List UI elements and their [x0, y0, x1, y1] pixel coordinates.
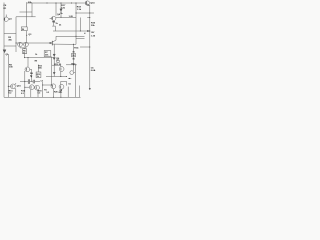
- transistor Q5 collector: [52, 36, 56, 42]
- resistor R5 box: [23, 49, 27, 54]
- wire mirror emitter left: [19, 47, 21, 48]
- transistor Q5 emitter wire y44.3: [52, 43, 76, 45]
- node dot: [89, 13, 90, 14]
- wire rail x26.7 top: [26, 2, 28, 27]
- svg-text:0.3: 0.3: [38, 93, 42, 95]
- svg-text:4: 4: [84, 32, 86, 35]
- resistor R3 box: [21, 27, 27, 31]
- transistor Q10: [11, 84, 16, 89]
- wire vertical x32: [31, 3, 33, 17]
- svg-text:0.2: 0.2: [9, 93, 13, 95]
- transistor Q1 base bar: [4, 18, 6, 20]
- wire x55.3: [54, 26, 56, 31]
- wire bottom rail: [4, 96, 81, 98]
- node dot: [89, 31, 90, 32]
- transistor Q10 collector: [15, 83, 16, 85]
- terminal mark right rail: [89, 88, 91, 89]
- transistor Q12 emitter leg: [37, 90, 39, 97]
- wire loop left: [60, 81, 62, 84]
- transistor Q2 base bar: [52, 17, 54, 20]
- transistor Q3 mirror left: [18, 42, 23, 47]
- node dot: [71, 3, 72, 4]
- svg-text:1k: 1k: [60, 13, 63, 15]
- transistor Q8 collector link: [74, 72, 76, 74]
- node dot: [56, 3, 57, 4]
- transistor Q4 base bar: [25, 43, 27, 46]
- wire cap right: [35, 81, 40, 83]
- wire x51.3 base Q13: [50, 57, 52, 87]
- wire loop right: [65, 81, 67, 85]
- wire tick x53 y26: [52, 25, 55, 27]
- transistor Q1: [4, 17, 8, 21]
- transistor Q8 emitter stub: [68, 77, 71, 79]
- svg-text:R12 50: R12 50: [55, 64, 63, 66]
- node dot: [76, 36, 77, 37]
- transistor Q14: [59, 84, 64, 89]
- wire y13: [76, 12, 94, 14]
- transistor Q1 collector stub: [5, 15, 7, 18]
- wire y31 rail: [53, 30, 90, 32]
- node dot: [89, 47, 90, 48]
- wire x42.7: [42, 82, 44, 97]
- wire y57.6: [25, 57, 55, 59]
- wire leg x68.2: [67, 87, 69, 98]
- wire y64.8: [66, 64, 76, 66]
- svg-text:R14: R14: [74, 47, 79, 50]
- diode D1 lead: [60, 3, 62, 17]
- wire y33.6 rung: [4, 33, 16, 35]
- wire x75.3 low rail: [74, 65, 76, 98]
- svg-text:Q14: Q14: [90, 1, 95, 4]
- wire x80.3: [79, 18, 81, 32]
- node dot: [76, 3, 77, 4]
- resistor R8 small box: [57, 60, 59, 62]
- svg-text:2k: 2k: [59, 25, 62, 27]
- transistor Q11 base wire: [25, 86, 30, 88]
- svg-text:Q1: Q1: [9, 18, 13, 20]
- svg-text:R1: R1: [44, 89, 47, 91]
- wire y47 right: [80, 46, 90, 48]
- svg-text:0.3: 0.3: [46, 92, 50, 94]
- wire y76.5: [46, 76, 66, 78]
- transistor Q9 emitter arrow: [88, 4, 90, 6]
- transistor Q3 base bar: [19, 43, 21, 46]
- transistor Q5 base bar: [51, 41, 53, 46]
- transistor Q6 collector wire: [27, 58, 29, 67]
- wire input y12: [20, 11, 33, 13]
- wire mirror bases y43: [16, 42, 52, 44]
- transistor Q9 emitter: [87, 4, 90, 5]
- wire y65.2: [52, 64, 61, 66]
- wire left rail: [3, 3, 5, 98]
- wire mirror emitter right: [25, 47, 27, 48]
- node dot: [16, 43, 17, 44]
- transistor Q12: [35, 85, 40, 90]
- node dot: [51, 85, 52, 86]
- transistor Q7 emitter leg: [60, 71, 62, 76]
- transistor Q13 base bar: [52, 85, 54, 88]
- node dot: [53, 97, 54, 98]
- transistor Q9 base bar: [85, 1, 87, 5]
- svg-text:1.3k: 1.3k: [77, 9, 82, 11]
- node dot: [69, 78, 70, 79]
- node dot: [8, 86, 9, 87]
- transistor Q11: [29, 85, 34, 90]
- wire cap mid: [30, 81, 33, 83]
- transistor Q13 emitter leg: [52, 89, 54, 98]
- svg-text:12k: 12k: [61, 7, 65, 9]
- transistor Q6 base bar: [26, 68, 28, 71]
- resistor R14 box: [72, 53, 76, 57]
- svg-text:1.28: 1.28: [69, 16, 74, 18]
- transistor Q14 base bar: [60, 85, 62, 88]
- svg-text:Q3: Q3: [28, 34, 32, 36]
- svg-text:C8: C8: [3, 5, 7, 7]
- wire rail x16: [15, 17, 17, 52]
- svg-text:50: 50: [30, 75, 33, 77]
- transistor Q6: [25, 67, 30, 72]
- transistor Q10 base wire: [8, 85, 10, 87]
- transistor Q4 mirror right: [24, 42, 29, 47]
- capacitor C3 plate2: [34, 80, 36, 84]
- transistor Q5 arrow: [50, 42, 52, 43]
- svg-text:1k: 1k: [35, 54, 38, 56]
- node dot: [60, 97, 61, 98]
- transistor Q6 emitter leg: [24, 71, 26, 97]
- transistor Q2 emitter leg: [53, 21, 55, 26]
- svg-text:R21: R21: [59, 92, 64, 94]
- wire top rail: [27, 2, 85, 4]
- wire rail x8.3: [7, 54, 9, 97]
- node dot: [24, 87, 25, 88]
- wire y46 rung: [4, 45, 16, 47]
- resistor R10 box: [36, 72, 41, 78]
- wire x60.8 base: [60, 65, 62, 66]
- svg-text:R9: R9: [35, 61, 38, 63]
- transistor Q10 base bar: [11, 85, 13, 88]
- wire x73.4: [72, 44, 74, 71]
- wire y47.9: [20, 47, 26, 49]
- transistor Q7 base bar: [60, 68, 62, 71]
- transistor Q13: [51, 84, 56, 89]
- resistor R7 box: [44, 51, 51, 57]
- wire y36.3: [56, 35, 85, 37]
- wire right rail x89.8: [89, 5, 91, 88]
- node dot: [31, 76, 32, 77]
- node dot: [66, 76, 67, 77]
- svg-text:0.6A: 0.6A: [91, 69, 96, 72]
- wire to R5: [24, 47, 26, 50]
- wire x79.6 low: [79, 86, 81, 98]
- capacitor C3 plate: [32, 80, 34, 84]
- node dot: [24, 81, 25, 82]
- node dot: [24, 57, 25, 58]
- transistor Q11 base bar: [30, 86, 32, 89]
- svg-text:50k: 50k: [38, 68, 42, 70]
- svg-text:50: 50: [73, 59, 76, 61]
- wire vertical x56: [55, 3, 57, 16]
- node dot: [80, 31, 81, 32]
- transistor Q2: [52, 16, 56, 20]
- svg-text:C6: C6: [68, 84, 71, 86]
- transistor Q7: [59, 67, 64, 72]
- wire y16.8: [16, 16, 36, 18]
- capacitor C2 plate: [27, 79, 29, 84]
- transistor Q14 emitter leg: [60, 89, 62, 97]
- transistor Q9: [85, 1, 89, 5]
- wire R5 lead: [24, 54, 26, 58]
- node dot: [47, 3, 48, 4]
- wire y17.3 mid: [56, 16, 76, 18]
- wire rail x76: [75, 3, 77, 44]
- transistor Q8 hook: [70, 71, 74, 75]
- svg-text:Q10: Q10: [17, 85, 22, 87]
- svg-text:39k: 39k: [8, 39, 12, 41]
- transistor Q2 base stub: [50, 17, 52, 19]
- svg-text:100: 100: [9, 67, 13, 69]
- svg-text:30k: 30k: [91, 25, 95, 27]
- diode D3: [53, 58, 55, 60]
- transistor Q11 emitter leg: [30, 90, 32, 98]
- wire tick y17.6 right: [87, 17, 90, 19]
- svg-text:1.30: 1.30: [91, 35, 96, 37]
- svg-text:0.2: 0.2: [21, 93, 25, 95]
- diode D2: [53, 54, 55, 56]
- wire y85: [43, 84, 52, 86]
- diode D4 on left rail: [3, 50, 6, 53]
- arrow output: [87, 30, 89, 31]
- node dot: [61, 3, 62, 4]
- node dot: [89, 17, 90, 18]
- diode D5: [53, 72, 55, 74]
- transistor Q10 emitter: [15, 88, 16, 97]
- wire x31.5: [31, 69, 33, 81]
- node dot: [28, 57, 29, 58]
- svg-text:R1: R1: [3, 8, 7, 10]
- wire y38.6: [76, 38, 85, 40]
- wire Q6 out: [30, 68, 32, 70]
- node dot: [73, 64, 74, 65]
- node dot: [76, 13, 77, 14]
- transistor Q15 collector loop top: [61, 80, 67, 82]
- node dot: [60, 76, 61, 77]
- wire R10 top lead: [38, 65, 40, 73]
- svg-text:12V: 12V: [91, 32, 95, 34]
- node dot: [26, 35, 27, 36]
- emitter rail x54.2: [53, 44, 55, 76]
- svg-text:C3: C3: [41, 80, 44, 82]
- node dot: [42, 85, 43, 86]
- wire y81.6 cap wire: [20, 81, 28, 83]
- svg-text:1k: 1k: [23, 52, 26, 54]
- diode D1: [60, 9, 62, 12]
- wire x26.7 mid: [26, 31, 28, 43]
- node dot: [73, 44, 74, 45]
- node dot: [76, 64, 77, 65]
- node dot: [61, 17, 62, 18]
- capacitor C2 plate2: [29, 79, 31, 84]
- transistor Q12 base bar: [35, 86, 37, 89]
